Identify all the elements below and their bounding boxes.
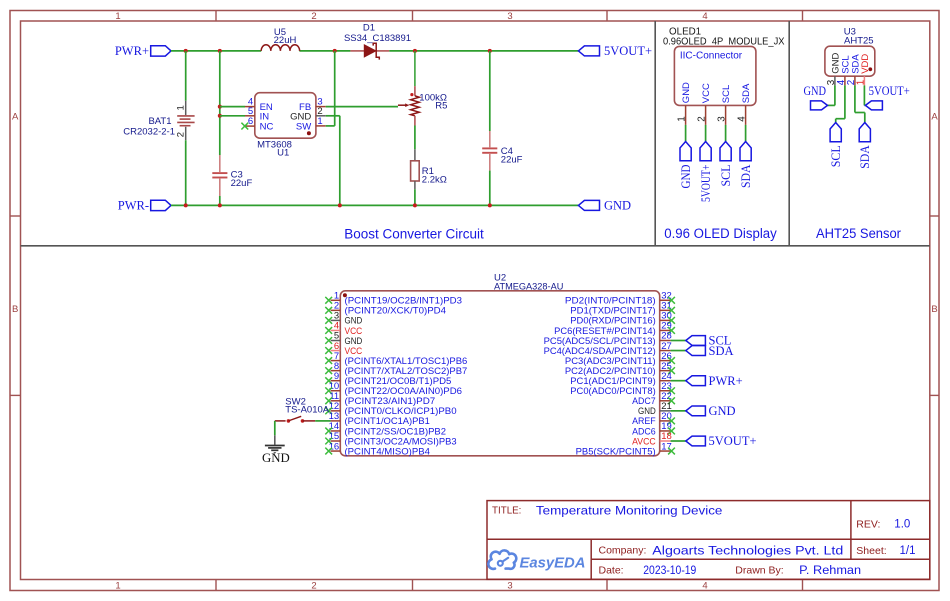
- U2 pin 22 ADC7: [660, 400, 671, 402]
- svg-text:PWR+: PWR+: [115, 44, 149, 58]
- svg-text:(PCINT6/XTAL1/TOSC1)PB6: (PCINT6/XTAL1/TOSC1)PB6: [345, 356, 468, 366]
- svg-text:SCL: SCL: [719, 165, 733, 187]
- junction bottom rail battery: [184, 203, 188, 207]
- junction top rail at R5: [413, 49, 417, 53]
- frame column ticks bottom: [215, 580, 217, 591]
- svg-text:PB5(SCK/PCINT5): PB5(SCK/PCINT5): [576, 446, 656, 456]
- frame row ticks right: [930, 215, 939, 217]
- no-connect X U2 pin 19: [668, 428, 675, 435]
- svg-text:VCC: VCC: [345, 326, 363, 336]
- svg-text:AREF: AREF: [632, 416, 656, 426]
- svg-text:4: 4: [702, 11, 707, 22]
- svg-text:2: 2: [311, 11, 316, 22]
- svg-text:Boost Converter Circuit: Boost Converter Circuit: [344, 227, 484, 242]
- svg-text:1/1: 1/1: [900, 545, 916, 557]
- no-connect X U2 pin 17: [668, 448, 675, 455]
- svg-text:1: 1: [176, 105, 187, 110]
- no-connect X U2 pin 2: [325, 307, 332, 314]
- svg-text:REV:: REV:: [856, 518, 880, 530]
- U2 pin 9 (PCINT21/OC0B/T1)PD5: [331, 380, 341, 382]
- svg-text:B: B: [12, 304, 18, 315]
- U2 pin 1 (PCINT19/OC2B/INT1)PD3: [331, 299, 341, 301]
- U2 pin 7 (PCINT6/XTAL1/TOSC1)PB6: [331, 360, 341, 362]
- port SDA U2: [686, 346, 706, 356]
- regulator U1 MT3608 body: [255, 93, 316, 139]
- svg-text:VCC: VCC: [345, 346, 363, 356]
- port 5VOUT+ top: [578, 46, 599, 56]
- svg-text:A: A: [12, 112, 19, 123]
- U1 pin 1 SW stub: [316, 125, 326, 127]
- svg-text:1: 1: [677, 116, 688, 121]
- U2 pin 25 PC2(ADC2/PCINT10): [660, 370, 671, 372]
- port GND OLED: [680, 142, 691, 161]
- junction top rail at battery: [184, 49, 188, 53]
- svg-text:1: 1: [115, 11, 120, 22]
- wire C4 branch upper: [489, 51, 491, 131]
- junction bottom rail C4: [488, 203, 492, 207]
- title block outer: [487, 501, 930, 580]
- U2 pin 30 PD0(RXD/PCINT16): [660, 319, 671, 321]
- wire bottom rail: [171, 204, 578, 206]
- U2 pin 21 GND: [660, 410, 671, 412]
- svg-text:CR2032-2-1: CR2032-2-1: [123, 126, 175, 137]
- no-connect X U2 pin 3: [325, 317, 332, 324]
- svg-text:22uH: 22uH: [274, 35, 297, 46]
- svg-text:SDA: SDA: [739, 164, 753, 188]
- title block vertical logo divider: [590, 539, 592, 579]
- wire R5 to R1: [414, 126, 416, 150]
- U2 pin 6 VCC: [331, 350, 341, 352]
- svg-text:5VOUT+: 5VOUT+: [869, 84, 910, 98]
- wire R1 to bottom rail: [414, 189, 416, 205]
- svg-text:EasyEDA: EasyEDA: [520, 554, 586, 571]
- svg-text:ADC7: ADC7: [632, 396, 656, 406]
- no-connect X U2 pin 23: [668, 387, 675, 394]
- wire AHT SCL: [844, 85, 846, 118]
- U2 pin 15 (PCINT3/OC2A/MOSI)PB3: [331, 440, 341, 442]
- no-connect X U2 pin 1: [325, 297, 332, 304]
- section divider horizontal: [21, 245, 930, 247]
- svg-text:U1: U1: [277, 148, 289, 159]
- svg-text:22uF: 22uF: [231, 178, 253, 189]
- svg-text:GND: GND: [345, 336, 363, 346]
- svg-text:2.2kΩ: 2.2kΩ: [422, 175, 447, 186]
- EasyEDA logo cloud: [488, 550, 516, 569]
- no-connect X U2 pin 20: [668, 418, 675, 425]
- section divider vertical AHT left: [788, 21, 790, 246]
- svg-text:(PCINT0/CLKO/ICP1)PB0: (PCINT0/CLKO/ICP1)PB0: [345, 406, 457, 416]
- no-connect X U2 pin 5: [325, 337, 332, 344]
- U1 pin 3 FB stub: [316, 106, 326, 108]
- svg-text:6: 6: [248, 116, 253, 127]
- svg-text:Temperature Monitoring Device: Temperature Monitoring Device: [536, 504, 723, 518]
- svg-text:SDA: SDA: [709, 344, 734, 358]
- svg-text:Date:: Date:: [599, 564, 624, 576]
- wire SW to top rail: [326, 125, 335, 127]
- svg-text:GND: GND: [804, 84, 827, 98]
- U2 pin 8 (PCINT7/XTAL2/TOSC2)PB7: [331, 370, 341, 372]
- wire OLED SCL: [725, 125, 727, 142]
- port GND AHT: [811, 101, 828, 110]
- no-connect X U2 pin 14: [325, 428, 332, 435]
- svg-text:4: 4: [737, 116, 748, 122]
- svg-text:2: 2: [697, 116, 708, 121]
- battery BAT1 wire upper: [185, 51, 187, 101]
- junction top rail at C4: [488, 49, 492, 53]
- wire IN: [220, 115, 245, 117]
- svg-text:(PCINT23/AIN1)PD7: (PCINT23/AIN1)PD7: [345, 396, 436, 406]
- no-connect X U2 pin 12: [325, 407, 332, 414]
- svg-text:PC2(ADC2/PCINT10): PC2(ADC2/PCINT10): [565, 366, 656, 376]
- svg-text:(PCINT21/OC0B/T1)PD5: (PCINT21/OC0B/T1)PD5: [345, 376, 452, 386]
- svg-text:SDA: SDA: [741, 83, 752, 103]
- U2 pin 27 PC4(ADC4/SDA/PCINT12): [660, 350, 671, 352]
- port GND bottom: [578, 200, 599, 210]
- svg-text:2023-10-19: 2023-10-19: [643, 563, 696, 577]
- svg-text:PC3(ADC3/PCINT11): PC3(ADC3/PCINT11): [565, 356, 656, 366]
- svg-text:R5: R5: [435, 101, 447, 112]
- capacitor C4: [489, 131, 491, 147]
- svg-text:PD0(RXD/PCINT16): PD0(RXD/PCINT16): [570, 316, 655, 326]
- U2 pin 10 (PCINT22/OC0A/AIN0)PD6: [331, 390, 341, 392]
- sensor U3 AHT25 body: [825, 46, 875, 76]
- no-connect X U2 pin 32: [668, 297, 675, 304]
- no-connect X U2 pin 31: [668, 307, 675, 314]
- svg-text:GND: GND: [604, 199, 631, 213]
- port SDA OLED: [740, 142, 751, 161]
- svg-text:3: 3: [507, 11, 512, 22]
- U2 pin1 marker dot: [343, 293, 347, 297]
- svg-text:1: 1: [317, 116, 322, 127]
- U2 pin 2 (PCINT20/XCK/T0)PD4: [331, 309, 341, 311]
- wire U2 pin 18 to port 5VOUT+: [671, 440, 686, 442]
- R5 arrow from FB: [398, 104, 406, 106]
- U2 pin 31 PD1(TXD/PCINT17): [660, 309, 671, 311]
- U2 pin 23 PC0(ADC0/PCINT8): [660, 390, 671, 392]
- junction EN branch: [218, 105, 222, 109]
- junction top rail SW node: [333, 49, 337, 53]
- U1 pin 2 GND stub: [316, 115, 326, 117]
- U2 pin 32 PD2(INT0/PCINT18): [660, 299, 671, 301]
- svg-text:3: 3: [717, 116, 728, 122]
- mcu U2 ATMEGA328-AU body: [340, 291, 659, 456]
- port SCL U2: [686, 336, 706, 346]
- resistor R5 zigzag: [414, 51, 416, 86]
- U3 pin1 marker dot: [868, 67, 872, 71]
- svg-text:IIC-Connector: IIC-Connector: [680, 50, 743, 61]
- svg-text:VDD: VDD: [860, 54, 871, 74]
- inductor U5: [261, 45, 299, 51]
- svg-text:SCL: SCL: [829, 145, 843, 167]
- svg-text:GND: GND: [679, 164, 693, 188]
- svg-text:2: 2: [311, 581, 316, 592]
- U2 pin 13 (PCINT1/OC1A)PB1: [331, 420, 341, 422]
- svg-text:3: 3: [507, 581, 512, 592]
- wire U1 GND to bottom rail: [326, 115, 340, 117]
- capacitor C3: [219, 155, 221, 172]
- wire OLED GND: [685, 125, 687, 142]
- port 5VOUT+ AHT: [865, 101, 882, 110]
- U2 pin 20 AREF: [660, 420, 671, 422]
- svg-text:0.96 OLED Display: 0.96 OLED Display: [664, 226, 777, 241]
- svg-text:PC6(RESET#/PCINT14): PC6(RESET#/PCINT14): [554, 326, 656, 336]
- svg-text:SDA: SDA: [858, 145, 872, 169]
- U1 pin 5 IN stub: [245, 115, 255, 117]
- wire C3 to bottom rail: [219, 196, 221, 205]
- svg-text:Company:: Company:: [599, 545, 647, 557]
- U1 pin 6 NC stub: [245, 125, 255, 127]
- wire C3 branch vertical upper: [219, 51, 221, 155]
- U2 pin 3 GND: [331, 319, 341, 321]
- svg-text:TS-A010A: TS-A010A: [285, 405, 329, 416]
- junction IN branch: [218, 114, 222, 118]
- svg-text:GND: GND: [345, 316, 363, 326]
- svg-text:AVCC: AVCC: [632, 436, 656, 446]
- U2 pin 12 (PCINT0/CLKO/ICP1)PB0: [331, 410, 341, 412]
- svg-text:Drawn By:: Drawn By:: [735, 564, 783, 576]
- title block line under title row: [487, 538, 930, 540]
- svg-text:B: B: [931, 304, 937, 315]
- wire C4 to bottom rail: [489, 171, 491, 206]
- svg-text:(PCINT20/XCK/T0)PD4: (PCINT20/XCK/T0)PD4: [345, 306, 447, 316]
- battery BAT1 wire lower: [185, 140, 187, 205]
- svg-text:Algoarts Technologies Pvt. Ltd: Algoarts Technologies Pvt. Ltd: [652, 543, 843, 557]
- title block line under company row: [591, 558, 930, 560]
- port 5VOUT+ U2: [686, 436, 706, 446]
- no-connect X U2 pin 8: [325, 367, 332, 374]
- wire SW2 to U2 pin 13: [315, 420, 330, 422]
- svg-text:NC: NC: [260, 122, 274, 133]
- junction bottom rail U1 GND: [338, 203, 342, 207]
- no-connect X U2 pin 11: [325, 397, 332, 404]
- U2 pin 14 (PCINT2/SS/OC1B)PB2: [331, 430, 341, 432]
- no-connect X U2 pin 4: [325, 327, 332, 334]
- svg-text:(PCINT7/XTAL2/TOSC2)PB7: (PCINT7/XTAL2/TOSC2)PB7: [345, 366, 468, 376]
- no-connect X U2 pin 9: [325, 377, 332, 384]
- no-connect X U1 pin 6: [241, 123, 248, 130]
- wire FB to R5 arrow: [326, 106, 398, 108]
- port 5VOUT+ OLED: [700, 142, 711, 161]
- wire AHT GND: [834, 85, 836, 105]
- svg-text:D1: D1: [363, 22, 375, 33]
- wire OLED 5VOUT+: [705, 125, 707, 142]
- wire U2 pin 28 to port SCL: [671, 340, 686, 342]
- port PWR+: [151, 46, 171, 56]
- no-connect X U2 pin 15: [325, 438, 332, 445]
- svg-text:P. Rehman: P. Rehman: [799, 563, 861, 577]
- U2 pin 26 PC3(ADC3/PCINT11): [660, 360, 671, 362]
- U2 pin 18 AVCC: [660, 440, 671, 442]
- U1 pin 4 EN stub: [245, 106, 255, 108]
- svg-text:1.0: 1.0: [894, 518, 910, 530]
- ground symbol: [274, 435, 276, 445]
- svg-text:PD2(INT0/PCINT18): PD2(INT0/PCINT18): [565, 296, 656, 306]
- svg-text:GND: GND: [262, 451, 290, 465]
- section divider vertical OLED left: [654, 21, 656, 246]
- U2 pin 4 VCC: [331, 329, 341, 331]
- wire top rail PWR+ to inductor: [171, 50, 261, 52]
- wire U2 pin 21 to port GND: [671, 410, 686, 412]
- title block vertical REV/Sheet divider: [850, 501, 852, 560]
- U2 pin 24 PC1(ADC1/PCINT9): [660, 380, 671, 382]
- wire U2 pin 24 to port PWR+: [671, 380, 686, 382]
- U2 pin 16 (PCINT4/MISO)PB4: [331, 450, 341, 452]
- battery BAT1: [185, 101, 187, 115]
- svg-text:A: A: [931, 112, 938, 123]
- svg-text:(PCINT19/OC2B/INT1)PD3: (PCINT19/OC2B/INT1)PD3: [345, 296, 463, 306]
- wire SW2 to ground: [274, 421, 276, 435]
- svg-text:2: 2: [176, 132, 187, 137]
- no-connect X U2 pin 26: [668, 357, 675, 364]
- frame row ticks left: [10, 215, 21, 217]
- R5 wiper dot: [410, 93, 413, 96]
- connector OLED1 body: [674, 46, 756, 105]
- diode D1: [350, 50, 364, 52]
- svg-text:(PCINT1/OC1A)PB1: (PCINT1/OC1A)PB1: [345, 416, 430, 426]
- svg-text:SCL: SCL: [721, 85, 732, 103]
- U2 pin 29 PC6(RESET#/PCINT14): [660, 329, 671, 331]
- svg-text:SS34_C183891: SS34_C183891: [344, 33, 411, 44]
- svg-text:VCC: VCC: [701, 83, 712, 103]
- U2 pin 17 PB5(SCK/PCINT5): [660, 450, 671, 452]
- wire top rail diode to 5VOUT+: [389, 50, 578, 52]
- svg-text:PD1(TXD/PCINT17): PD1(TXD/PCINT17): [570, 306, 655, 316]
- svg-text:22uF: 22uF: [501, 154, 523, 165]
- wire top rail inductor to diode: [299, 50, 350, 52]
- svg-text:SW: SW: [296, 122, 311, 133]
- no-connect X U2 pin 7: [325, 357, 332, 364]
- svg-text:1: 1: [115, 581, 120, 592]
- port SCL OLED: [720, 142, 731, 161]
- U2 pin 19 ADC6: [660, 430, 671, 432]
- svg-text:TITLE:: TITLE:: [492, 506, 521, 517]
- no-connect X U2 pin 6: [325, 347, 332, 354]
- svg-text:5VOUT+: 5VOUT+: [604, 44, 652, 58]
- wire U2 pin 27 to port SDA: [671, 350, 686, 352]
- no-connect X U2 pin 30: [668, 317, 675, 324]
- U2 pin 5 GND: [331, 340, 341, 342]
- wire OLED SDA: [745, 125, 747, 142]
- port PWR-: [151, 200, 171, 210]
- U2 pin 28 PC5(ADC5/SCL/PCINT13): [660, 340, 671, 342]
- svg-text:(PCINT2/SS/OC1B)PB2: (PCINT2/SS/OC1B)PB2: [345, 426, 447, 436]
- svg-text:PC5(ADC5/SCL/PCINT13): PC5(ADC5/SCL/PCINT13): [544, 336, 656, 346]
- port SCL AHT: [830, 123, 841, 142]
- frame column ticks top: [215, 11, 217, 22]
- port GND U2: [686, 406, 706, 416]
- svg-text:AHT25 Sensor: AHT25 Sensor: [816, 226, 901, 241]
- wire AHT SDA: [854, 85, 856, 112]
- port PWR+ U2: [686, 376, 706, 386]
- svg-text:PWR-: PWR-: [118, 199, 149, 213]
- svg-text:(PCINT3/OC2A/MOSI)PB3: (PCINT3/OC2A/MOSI)PB3: [345, 436, 457, 446]
- wire EN: [220, 106, 245, 108]
- svg-text:GND: GND: [681, 82, 692, 103]
- svg-text:ADC6: ADC6: [632, 426, 656, 436]
- port SDA AHT: [859, 123, 870, 142]
- svg-text:1: 1: [856, 80, 867, 85]
- U1 pin1 marker dot: [307, 131, 311, 135]
- svg-text:PWR+: PWR+: [709, 374, 743, 388]
- svg-text:PC4(ADC4/SDA/PCINT12): PC4(ADC4/SDA/PCINT12): [544, 346, 656, 356]
- svg-text:Sheet:: Sheet:: [856, 545, 886, 557]
- junction bottom rail R1: [413, 203, 417, 207]
- svg-text:PC0(ADC0/PCINT8): PC0(ADC0/PCINT8): [570, 386, 655, 396]
- junction bottom rail C3: [218, 203, 222, 207]
- svg-text:PC1(ADC1/PCINT9): PC1(ADC1/PCINT9): [570, 376, 655, 386]
- svg-text:(PCINT4/MISO)PB4: (PCINT4/MISO)PB4: [345, 446, 430, 456]
- svg-text:AHT25: AHT25: [844, 36, 874, 47]
- no-connect X U2 pin 25: [668, 367, 675, 374]
- svg-text:GND: GND: [709, 404, 736, 418]
- no-connect X U2 pin 29: [668, 327, 675, 334]
- resistor R1: [414, 149, 416, 161]
- svg-text:(PCINT22/OC0A/AIN0)PD6: (PCINT22/OC0A/AIN0)PD6: [345, 386, 463, 396]
- svg-text:4: 4: [702, 581, 707, 592]
- svg-text:GND: GND: [638, 406, 656, 416]
- U2 pin 11 (PCINT23/AIN1)PD7: [331, 400, 341, 402]
- no-connect X U2 pin 22: [668, 397, 675, 404]
- svg-text:5VOUT+: 5VOUT+: [709, 434, 757, 448]
- svg-text:5VOUT+: 5VOUT+: [699, 164, 713, 202]
- switch SW2: [275, 420, 286, 422]
- no-connect X U2 pin 10: [325, 387, 332, 394]
- junction top rail at C3 branch: [218, 49, 222, 53]
- no-connect X U2 pin 16: [325, 448, 332, 455]
- wire AHT VDD: [863, 85, 865, 105]
